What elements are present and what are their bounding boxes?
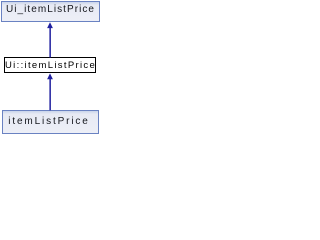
inheritance arrow lower (itemListPrice to Ui::itemListPrice)	[47, 73, 53, 110]
node itemListPrice	[2, 110, 99, 134]
node Ui::itemListPrice	[4, 57, 96, 73]
node Ui_itemListPrice	[1, 1, 100, 22]
inheritance arrow upper (Ui::itemListPrice to Ui_itemListPrice)	[47, 22, 53, 57]
